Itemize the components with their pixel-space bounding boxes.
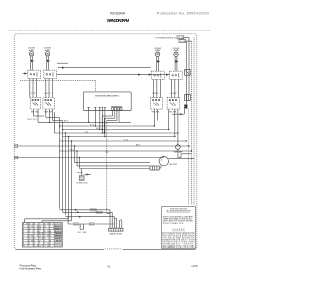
fuse F1 on right bus bbox=[185, 70, 191, 76]
wire P3 drop pair bbox=[157, 56, 159, 71]
label above switch S4 bbox=[171, 93, 178, 95]
surface element P1 (left front) value label 2100W bbox=[28, 47, 36, 51]
label below switch S2 bbox=[45, 111, 53, 113]
svg-text:BR: BR bbox=[34, 246, 39, 248]
J1 harness drop wires with elbows bbox=[102, 110, 119, 122]
U1 pin drop wires bbox=[89, 111, 105, 137]
svg-text:† Non-Illustrated Parts: † Non-Illustrated Parts bbox=[19, 267, 42, 270]
label above switch S2 bbox=[45, 93, 52, 95]
svg-text:316419302: 316419302 bbox=[105, 248, 122, 250]
lower bus label tag right bbox=[89, 223, 94, 226]
wire lamp to bus bbox=[178, 149, 192, 157]
wire bus y157.5 bbox=[14, 157, 164, 159]
right side drop wires below switches bbox=[154, 109, 178, 136]
part number on bottom border bbox=[104, 247, 123, 251]
U1 pin 4 bbox=[102, 108, 104, 111]
notes box bbox=[162, 207, 196, 249]
surface element P1 circle bbox=[29, 52, 33, 56]
elbow of dashed drop to the right bbox=[107, 210, 110, 228]
wire bus y129.5 bbox=[63, 129, 169, 131]
svg-text:W-2: W-2 bbox=[74, 224, 78, 226]
motor label bbox=[170, 164, 178, 166]
wire drop into EOC top bbox=[95, 80, 97, 92]
bake element label bbox=[110, 232, 122, 235]
svg-text:L.R. 6": L.R. 6" bbox=[45, 93, 52, 95]
connector arrow P4 bbox=[176, 60, 179, 63]
svg-text:BR-6: BR-6 bbox=[136, 144, 140, 146]
footer functional parts note bbox=[19, 265, 42, 271]
svg-text:L1-A: L1-A bbox=[178, 36, 183, 39]
motor B1 feed from bus bbox=[163, 156, 165, 157]
svg-text:P/N 316419300: P/N 316419300 bbox=[177, 247, 194, 249]
motor B1 bbox=[159, 156, 168, 165]
bundle elbow wire y165.9 bbox=[77, 165, 150, 167]
svg-text:ELECTRONIC OVEN CONTROL: ELECTRONIC OVEN CONTROL bbox=[95, 96, 120, 98]
svg-text:WITH POWER OFF.: WITH POWER OFF. bbox=[163, 223, 185, 225]
wire y114.2 with left arrow bbox=[172, 113, 184, 115]
notes legend rows bbox=[162, 233, 195, 249]
svg-text:INF. SW.: INF. SW. bbox=[169, 112, 177, 114]
bake element terminal block TB2 bbox=[109, 228, 123, 231]
wire bus y133 bbox=[55, 132, 178, 134]
svg-text:OR: OR bbox=[44, 246, 49, 248]
svg-text:MOTOR: MOTOR bbox=[170, 164, 178, 166]
U1 connector header J1 bbox=[111, 107, 122, 110]
U1 pin 3 bbox=[99, 108, 101, 111]
surface element P3 circle bbox=[155, 52, 159, 56]
wires R4 to switch S4 bbox=[172, 79, 179, 97]
weave vertical W8 elbow right bbox=[79, 158, 81, 169]
weave vertical W3 bbox=[65, 133, 67, 215]
header publication number bbox=[157, 12, 209, 16]
junction dot y122/x49.7 bbox=[49, 122, 50, 123]
wire bus y151 bbox=[60, 150, 192, 152]
color table last column dense entries bbox=[55, 225, 63, 240]
wires R2 to switch S2 bbox=[46, 78, 53, 97]
notes legend table divider bbox=[162, 233, 196, 249]
svg-text:Publication No. 5995410902: Publication No. 5995410902 bbox=[157, 12, 209, 16]
surface element P2 circle bbox=[45, 52, 49, 56]
weave vertical W1 bbox=[59, 126, 61, 209]
label above switch S1 bbox=[30, 93, 37, 95]
right bus wire N2 bbox=[188, 37, 190, 94]
wire bus y122 bbox=[38, 121, 131, 123]
label below switch S3 bbox=[152, 112, 160, 114]
label below switch drops bbox=[28, 119, 38, 121]
connector arrow P3 bbox=[157, 60, 160, 63]
wire connector CN2 to motor bbox=[159, 166, 161, 169]
svg-text:OVEN LAMP: OVEN LAMP bbox=[173, 151, 183, 154]
wire drop x104.3 to bus bbox=[104, 118, 105, 134]
main box bottom border solid overlay bbox=[16, 248, 195, 250]
svg-text:12/05: 12/05 bbox=[191, 264, 198, 268]
surface element P4 (right front) value label bbox=[173, 48, 181, 52]
svg-text:BAKE ELEM: BAKE ELEM bbox=[110, 232, 122, 235]
dotted separator rule bbox=[8, 30, 211, 32]
svg-text:R-10: R-10 bbox=[90, 124, 94, 126]
infinite switch S2 bbox=[43, 98, 55, 110]
svg-text:WIRING DIAGRAM: WIRING DIAGRAM bbox=[107, 18, 130, 23]
infinite switch S1 bbox=[30, 98, 40, 110]
wire bus y74.6 with connector arrows bbox=[56, 74, 169, 76]
svg-text:INF. SW.: INF. SW. bbox=[152, 112, 160, 114]
U1 pin 5 bbox=[104, 108, 106, 111]
header model number bbox=[110, 12, 126, 16]
surface element P4 circle bbox=[174, 52, 178, 56]
right drop junction dots bbox=[154, 125, 193, 151]
bundle elbow wire y168.5 bbox=[80, 168, 151, 170]
label below switch S4 bbox=[169, 112, 177, 114]
svg-text:TRACE: TRACE bbox=[55, 237, 63, 240]
door lock side connector arrow bbox=[84, 174, 91, 176]
wire dashed bus y80.4 bbox=[20, 79, 96, 81]
bottom wire run y216.7 bbox=[66, 216, 115, 218]
svg-text:Y-14: Y-14 bbox=[84, 131, 88, 133]
long dashed drop x106.8 to bottom bbox=[106, 120, 108, 213]
oven lamp DS1 bbox=[176, 145, 181, 150]
footer page number bbox=[108, 264, 111, 268]
border tick at bus y157.5 bbox=[15, 156, 18, 159]
svg-text:R.R. 6": R.R. 6" bbox=[153, 93, 160, 95]
infinite switch S4 bbox=[167, 98, 180, 110]
title WIRING DIAGRAM bbox=[107, 18, 130, 23]
switch S1 drop wires to bus bbox=[34, 109, 63, 133]
receptacle block R4 bbox=[170, 71, 183, 79]
wire P1 drop pair bbox=[31, 56, 33, 70]
label below switch S1 bbox=[31, 111, 39, 113]
harness connector CN2 (striped) bbox=[150, 166, 159, 170]
terminal tag L2 bbox=[179, 40, 192, 43]
connector arrow P1 bbox=[31, 60, 34, 63]
receptacle block R3 bbox=[152, 71, 165, 79]
svg-text:TO POWER SUPPLY L1: TO POWER SUPPLY L1 bbox=[155, 38, 177, 40]
bundle elbow wire y162.6 to motor connector bbox=[75, 162, 151, 164]
right bus breaker component bbox=[184, 105, 187, 115]
weave vertical W7 elbow right bbox=[76, 151, 78, 166]
notes legend heading bbox=[172, 229, 185, 231]
door lock label bbox=[77, 183, 89, 185]
wire top bus y67.6 with connector arrow bbox=[58, 67, 151, 69]
wires R3 to switch S3 bbox=[154, 79, 161, 97]
svg-text:GY-2: GY-2 bbox=[70, 149, 74, 151]
receptacle block R1 (left) bbox=[28, 70, 41, 78]
connector arrow into R1 bbox=[23, 72, 28, 74]
door switch label bbox=[78, 232, 88, 234]
svg-text:REF DRAWING: REF DRAWING bbox=[162, 246, 176, 249]
weave vertical W2 bbox=[62, 130, 64, 213]
lower bus label tag left bbox=[74, 223, 79, 226]
weave vertical W5 long to table bbox=[42, 141, 72, 223]
wire color code table bbox=[23, 223, 63, 248]
wire bus y146 from left border bbox=[14, 145, 189, 147]
wire run label tags bbox=[90, 209, 102, 215]
right bus dashed wire N2b bbox=[187, 109, 189, 205]
svg-text:R.F. 8": R.F. 8" bbox=[171, 93, 178, 95]
border tick at bus y146 bbox=[15, 145, 18, 148]
door switch DS (two prong) bbox=[80, 224, 84, 230]
bus micro labels bbox=[64, 121, 140, 152]
svg-text:BK-2 W-1: BK-2 W-1 bbox=[28, 119, 38, 121]
svg-text:W-12: W-12 bbox=[96, 128, 100, 130]
svg-text:R-4: R-4 bbox=[90, 224, 94, 226]
wire bus y136.5 bbox=[63, 136, 175, 138]
oven lamp DS1 feed wire bbox=[177, 133, 179, 145]
wire elbow x38 bbox=[38, 115, 44, 117]
notes box title bbox=[167, 207, 192, 212]
notes paragraph bbox=[163, 215, 194, 225]
wires R1 to switch S1 bbox=[30, 78, 37, 97]
label To Power Supply bbox=[155, 38, 177, 40]
svg-text:BK-28: BK-28 bbox=[97, 212, 102, 214]
svg-text:L.F. 6": L.F. 6" bbox=[30, 93, 37, 95]
svg-text:DR. SW.: DR. SW. bbox=[78, 232, 88, 234]
label above switch S3 bbox=[153, 93, 160, 95]
svg-text:V-16: V-16 bbox=[124, 139, 128, 141]
electronic oven control U1 bbox=[83, 92, 131, 111]
wire drop x102.2 to bus bbox=[102, 116, 103, 130]
footer date bbox=[191, 264, 198, 268]
svg-text:BK-8: BK-8 bbox=[64, 121, 68, 123]
infinite switch S3 bbox=[151, 98, 163, 110]
wire P2 drop pair bbox=[47, 56, 49, 70]
wire bus y126 bbox=[60, 125, 155, 127]
wire bus y141 bbox=[60, 140, 187, 142]
weave vertical W4 long to table bbox=[25, 137, 69, 223]
bottom wire run y209.8 bbox=[60, 209, 111, 211]
U1 pin 2 bbox=[94, 108, 96, 111]
terminal tag L1 bbox=[177, 36, 189, 39]
right bus wire N3 dashed bbox=[191, 41, 193, 205]
junction tick above door lock bbox=[77, 169, 83, 176]
bake element drops into TB2 bbox=[112, 212, 122, 228]
right bus wire N1 bbox=[185, 41, 187, 104]
surface element P2 (left rear) value label 1250W bbox=[44, 47, 52, 51]
weave vertical W6 elbow right bbox=[74, 146, 76, 163]
svg-text:61: 61 bbox=[108, 264, 111, 268]
receptacle block R2 (right of pair) bbox=[44, 70, 57, 78]
terminal block TB1 on right bus bbox=[185, 95, 191, 101]
svg-text:FEF326AS4: FEF326AS4 bbox=[110, 12, 126, 16]
svg-text:L2-A: L2-A bbox=[180, 40, 185, 43]
U1 pin 1 bbox=[88, 108, 90, 111]
svg-text:COLOR: COLOR bbox=[55, 246, 63, 248]
main diagram dashed border bbox=[14, 34, 197, 250]
color code table text bbox=[23, 224, 63, 248]
svg-text:OR-30: OR-30 bbox=[91, 210, 96, 212]
door lock solenoid L1 (hatched) bbox=[79, 175, 84, 180]
bottom wire run y212.3 bbox=[63, 211, 113, 213]
wire P4 drop pair bbox=[175, 56, 177, 71]
right bus wire N4 dashed bbox=[193, 37, 195, 205]
svg-text:DOOR LOCK: DOOR LOCK bbox=[77, 183, 89, 185]
connector arrow P2 bbox=[47, 60, 50, 63]
surface element P3 (right rear) value label bbox=[154, 48, 162, 52]
weave junction dots bbox=[59, 122, 106, 159]
oven lamp label bbox=[173, 151, 183, 154]
wire top bus y63 bbox=[57, 62, 68, 64]
wire motor right to bus bbox=[169, 157, 195, 159]
svg-text:W: W bbox=[23, 246, 25, 248]
lower bus y224 bbox=[68, 223, 114, 225]
wire elbow from run3 down to lower bus bbox=[67, 217, 69, 224]
